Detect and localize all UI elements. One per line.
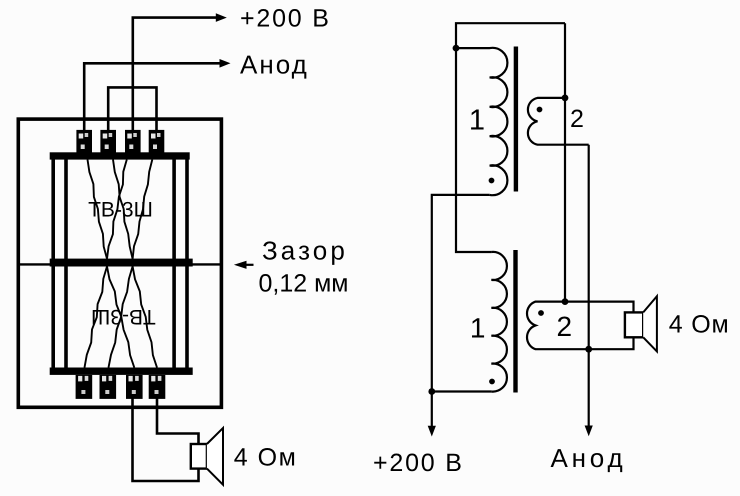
svg-text:+200 В: +200 В (240, 4, 331, 32)
svg-text:Анод: Анод (240, 49, 309, 79)
svg-text:1: 1 (469, 105, 485, 137)
svg-text:4 Ом: 4 Ом (669, 310, 730, 338)
svg-text:0,12 мм: 0,12 мм (259, 270, 349, 298)
svg-text:2: 2 (570, 105, 584, 133)
svg-text:Анод: Анод (551, 443, 627, 473)
svg-text:1: 1 (470, 313, 486, 344)
svg-text:ТВ-3Ш: ТВ-3Ш (88, 198, 153, 221)
svg-text:2: 2 (557, 311, 573, 342)
svg-text:ТВ-3Ш: ТВ-3Ш (91, 305, 156, 328)
svg-text:+200 В: +200 В (373, 449, 464, 477)
svg-text:4 Ом: 4 Ом (234, 444, 297, 472)
svg-text:Зазор: Зазор (262, 235, 348, 265)
